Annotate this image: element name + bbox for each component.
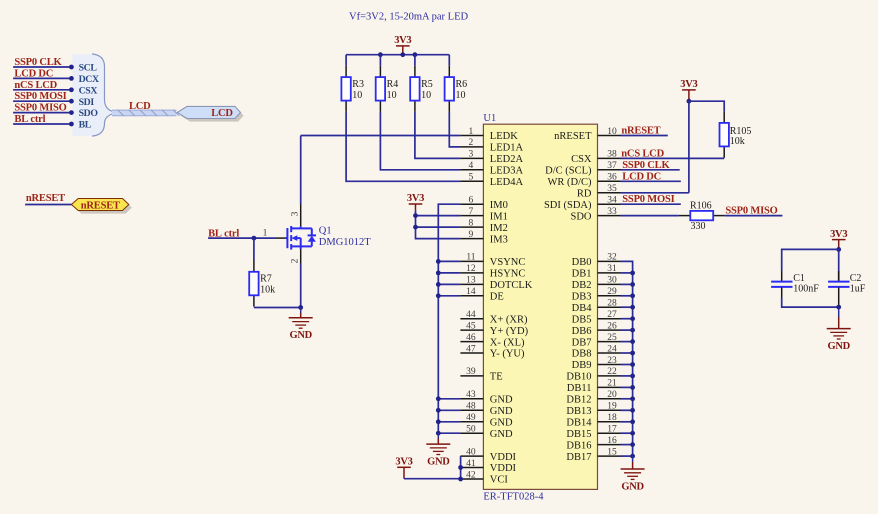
pin 1 LEDK: [460, 135, 483, 137]
svg-text:3V3: 3V3: [395, 457, 412, 468]
svg-text:3V3: 3V3: [407, 193, 424, 204]
svg-text:LCD DC: LCD DC: [622, 171, 661, 182]
wire resistor x=414.9 to LED pin: [415, 112, 461, 158]
svg-text:DB17: DB17: [566, 452, 591, 463]
svg-text:C2: C2: [850, 273, 862, 284]
wire DB row 23: [621, 398, 633, 400]
junction DB row 28: [630, 454, 635, 459]
svg-text:24: 24: [607, 344, 617, 354]
wire 3V3 down to RD: [688, 101, 690, 193]
pin 20 DB12: [598, 398, 621, 400]
wire DB row 18: [621, 341, 633, 343]
svg-text:34: 34: [607, 196, 617, 206]
junction sync row 14: [436, 293, 441, 298]
pin 9 IM3: [460, 238, 483, 240]
svg-text:R106: R106: [690, 200, 712, 211]
wire rail to R3: [345, 55, 347, 66]
svg-text:28: 28: [607, 299, 617, 309]
svg-text:5: 5: [469, 173, 474, 183]
svg-text:330: 330: [691, 221, 706, 232]
wire resistor x=346.1 to LED pin: [346, 112, 460, 181]
junction VCI 42: [458, 477, 463, 482]
svg-text:33: 33: [607, 207, 617, 217]
wire IM2: [416, 226, 461, 228]
wire SDO to R106: [621, 215, 679, 217]
svg-text:DE: DE: [490, 292, 504, 303]
pin 32 DB0: [598, 260, 621, 262]
wire DB row 12: [621, 272, 633, 274]
svg-text:36: 36: [607, 173, 617, 183]
svg-text:DB14: DB14: [566, 418, 592, 429]
ground Q1 source: [289, 318, 313, 328]
svg-text:LCD DC: LCD DC: [14, 68, 53, 79]
svg-text:10k: 10k: [730, 136, 745, 147]
svg-text:LED1A: LED1A: [490, 143, 524, 154]
svg-text:32: 32: [607, 253, 617, 263]
svg-text:14: 14: [466, 287, 476, 297]
pin 18 DB14: [598, 421, 621, 423]
junction DB row 22: [630, 385, 635, 390]
svg-text:9: 9: [469, 230, 474, 240]
pin 37 D/C (SCL): [598, 169, 621, 171]
junction DB row 19: [630, 351, 635, 356]
svg-text:12: 12: [466, 264, 476, 274]
svg-text:27: 27: [607, 310, 617, 320]
wire DB row 27: [621, 444, 633, 446]
svg-text:LEDK: LEDK: [490, 131, 518, 142]
node nCS_LCD into bus brace: [69, 87, 74, 92]
svg-text:DB15: DB15: [566, 429, 591, 440]
junction DB row 18: [630, 339, 635, 344]
svg-text:IM2: IM2: [490, 223, 508, 234]
pin 41 VDDI: [460, 467, 483, 469]
svg-text:2: 2: [291, 258, 301, 263]
wire 3V3 to VCI: [404, 478, 461, 480]
svg-text:10: 10: [421, 90, 431, 101]
pin 24 DB8: [598, 352, 621, 354]
svg-text:DB13: DB13: [566, 406, 591, 417]
pin 31 DB1: [598, 272, 621, 274]
wire rail to R5: [414, 55, 416, 66]
svg-text:GND: GND: [490, 418, 513, 429]
pin 15 DB17: [598, 455, 621, 457]
3V3 stub: [688, 90, 690, 101]
pin 47 Y- (YU): [460, 352, 483, 354]
junction DB row 21: [630, 374, 635, 379]
transistor Q1 gate pin: [275, 237, 286, 239]
svg-text:41: 41: [466, 459, 476, 469]
3V3 stub: [402, 46, 404, 55]
pin 34 SDI (SDA): [598, 203, 621, 205]
pin 17 DB15: [598, 432, 621, 434]
svg-text:10: 10: [607, 127, 617, 137]
wire nRESET: [25, 204, 71, 206]
wire LEDK: [301, 135, 461, 137]
svg-text:SDO: SDO: [79, 108, 99, 119]
wire LCD_DC: [13, 77, 71, 79]
wire DB row 16: [621, 318, 633, 320]
wire GND pin row 24: [438, 409, 460, 411]
svg-text:LED4A: LED4A: [490, 177, 524, 188]
ground DB lines: [621, 469, 645, 479]
bus LCD: [112, 110, 176, 116]
wire DB row 14: [621, 295, 633, 297]
wire DB row 22: [621, 386, 633, 388]
svg-text:GND: GND: [827, 341, 850, 352]
junction 3V3/R105/RD: [687, 99, 692, 104]
pin 12 HSYNC: [460, 272, 483, 274]
svg-text:R7: R7: [260, 274, 272, 285]
wire LEDK to drain: [300, 136, 302, 205]
power 3V3 top rail: [396, 45, 410, 47]
pin 10 nRESET: [598, 135, 621, 137]
svg-text:nRESET: nRESET: [26, 193, 65, 204]
pin 26 DB6: [598, 329, 621, 331]
svg-text:X+ (XR): X+ (XR): [490, 314, 528, 325]
pin 7 IM1: [460, 215, 483, 217]
wire DB row 20: [621, 364, 633, 366]
wire GND pin row 25: [438, 421, 460, 423]
svg-text:44: 44: [466, 310, 476, 320]
wire top to C1: [782, 249, 839, 271]
svg-text:DB9: DB9: [572, 360, 592, 371]
svg-text:42: 42: [466, 470, 476, 480]
pin 6 IM0: [460, 203, 483, 205]
pin 35 RD: [598, 192, 621, 194]
transistor Q1 DMG1012T: [286, 226, 316, 250]
svg-text:C1: C1: [793, 273, 805, 284]
ground caps: [827, 329, 851, 339]
svg-text:nCS LCD: nCS LCD: [14, 80, 57, 91]
wire VDDI tie: [460, 456, 462, 479]
junction BL_ctrl/R7: [252, 236, 257, 241]
pin 46 X- (XL): [460, 341, 483, 343]
wire R7 bottom to source node: [254, 307, 301, 309]
svg-text:D/C (SCL): D/C (SCL): [545, 166, 592, 177]
wire sync row 12: [438, 272, 460, 274]
junction DB row 25: [630, 419, 635, 424]
svg-text:43: 43: [466, 390, 476, 400]
svg-text:DB1: DB1: [572, 269, 592, 280]
svg-text:GND: GND: [490, 395, 513, 406]
svg-text:29: 29: [607, 287, 617, 297]
svg-text:DB7: DB7: [572, 337, 592, 348]
junction GND pin row 25: [436, 419, 441, 424]
svg-text:ER-TFT028-4: ER-TFT028-4: [483, 492, 544, 503]
svg-text:VDDI: VDDI: [490, 452, 517, 463]
svg-text:SDO: SDO: [570, 211, 591, 222]
wire DB tie line: [621, 261, 633, 456]
svg-text:SSP0 CLK: SSP0 CLK: [14, 57, 62, 68]
pin 38 CSX: [598, 157, 621, 159]
pin 21 DB11: [598, 386, 621, 388]
junction DB row 26: [630, 431, 635, 436]
pin 30 DB2: [598, 283, 621, 285]
pin 25 DB7: [598, 341, 621, 343]
junction rail/R4: [378, 52, 383, 57]
pin 39 TE: [460, 375, 483, 377]
svg-text:RD: RD: [577, 189, 592, 200]
svg-text:Y- (YU): Y- (YU): [490, 349, 525, 360]
junction DB row 24: [630, 408, 635, 413]
wire BL_ctrl junction down to R7: [253, 238, 255, 260]
resistor R3 10: [341, 66, 364, 112]
svg-text:31: 31: [607, 264, 617, 274]
svg-text:40: 40: [466, 447, 476, 457]
wire sync row 13: [438, 283, 460, 285]
resistor R105 10k: [723, 112, 725, 123]
svg-text:IM3: IM3: [490, 234, 508, 245]
svg-text:VSYNC: VSYNC: [490, 257, 526, 268]
resistor R106 330: [679, 215, 690, 217]
svg-text:DB2: DB2: [572, 280, 592, 291]
pin 5 LED4A: [460, 180, 483, 182]
junction sync row 13: [436, 282, 441, 287]
node SSP0_MOSI into bus brace: [69, 99, 74, 104]
junction IM1: [413, 213, 418, 218]
node LCD_DC into bus brace: [69, 76, 74, 81]
svg-text:25: 25: [607, 333, 617, 343]
wire IM1: [416, 215, 461, 217]
svg-text:22: 22: [607, 367, 617, 377]
wire sync row 14: [438, 295, 460, 297]
svg-text:DB4: DB4: [572, 303, 593, 314]
svg-text:GND: GND: [427, 457, 450, 468]
svg-text:3V3: 3V3: [394, 35, 411, 46]
pin 2 source stub: [300, 249, 302, 264]
svg-text:15: 15: [607, 447, 617, 457]
svg-text:38: 38: [607, 150, 617, 160]
svg-text:11: 11: [466, 253, 475, 263]
pin 22 DB10: [598, 375, 621, 377]
svg-text:8: 8: [469, 218, 474, 228]
junction DB row 12: [630, 271, 635, 276]
wire rail to R6: [448, 55, 450, 66]
svg-text:30: 30: [607, 276, 617, 286]
svg-text:Y+ (YD): Y+ (YD): [490, 326, 529, 337]
svg-text:CSX: CSX: [79, 85, 98, 96]
pin 19 DB13: [598, 409, 621, 411]
wire 3V3 to IM3: [416, 210, 461, 238]
wire rail to R4: [379, 55, 381, 66]
pin 16 DB16: [598, 444, 621, 446]
junction C2/GND: [836, 305, 841, 310]
ground IC left: [426, 444, 450, 454]
svg-text:13: 13: [466, 276, 476, 286]
resistor R6 10: [445, 66, 468, 112]
svg-text:17: 17: [607, 425, 617, 435]
pin 11 VSYNC: [460, 260, 483, 262]
power 3V3 right: [682, 89, 696, 91]
GND stub: [300, 308, 302, 314]
svg-text:SCL: SCL: [79, 63, 98, 74]
pin 2 LED1A: [460, 146, 483, 148]
svg-text:47: 47: [466, 344, 476, 354]
svg-text:35: 35: [607, 184, 617, 194]
capacitor C2 1uF: [838, 249, 840, 281]
node SSP0_MISO into bus brace: [69, 110, 74, 115]
svg-text:X- (XL): X- (XL): [490, 337, 525, 348]
svg-text:nRESET: nRESET: [81, 200, 120, 211]
power 3V3 caps: [832, 239, 846, 241]
svg-text:SSP0 CLK: SSP0 CLK: [622, 160, 670, 171]
pin 28 DB4: [598, 306, 621, 308]
svg-text:HSYNC: HSYNC: [490, 269, 526, 280]
pin 36 WR (D/C): [598, 180, 621, 182]
junction DB row 15: [630, 305, 635, 310]
svg-text:LED2A: LED2A: [490, 154, 524, 165]
resistor R7 10k: [249, 261, 275, 307]
svg-text:49: 49: [466, 413, 476, 423]
bus collector brace for LCD signals: [72, 54, 114, 136]
svg-text:DB3: DB3: [572, 292, 592, 303]
pin 29 DB3: [598, 295, 621, 297]
svg-text:46: 46: [466, 333, 476, 343]
svg-text:4: 4: [469, 161, 474, 171]
node BL_ctrl into bus brace: [69, 122, 74, 127]
wire resistor x=380.4 to LED pin: [380, 112, 460, 170]
junction GND pin row 24: [436, 408, 441, 413]
junction GND pin row 23: [436, 396, 441, 401]
svg-text:48: 48: [466, 402, 476, 412]
wire DB row 15: [621, 306, 633, 308]
wire SSP0_CLK: [621, 169, 680, 171]
svg-text:GND: GND: [490, 406, 513, 417]
svg-text:SSP0 MISO: SSP0 MISO: [14, 103, 66, 114]
wire sync row 11: [438, 260, 460, 262]
wire DB row 13: [621, 283, 633, 285]
svg-text:10: 10: [387, 90, 397, 101]
wire SSP0_MISO: [13, 112, 71, 114]
svg-text:LCD: LCD: [211, 108, 233, 119]
svg-text:19: 19: [607, 402, 617, 412]
svg-text:Vf=3V2, 15-20mA par LED: Vf=3V2, 15-20mA par LED: [349, 12, 468, 23]
svg-text:SDI: SDI: [79, 97, 95, 108]
svg-text:CSX: CSX: [571, 154, 592, 165]
pin 27 DB5: [598, 318, 621, 320]
junction IM2: [413, 225, 418, 230]
pin 45 Y+ (YD): [460, 329, 483, 331]
svg-text:DB16: DB16: [566, 440, 591, 451]
svg-text:WR (D/C): WR (D/C): [547, 177, 592, 188]
svg-text:7: 7: [469, 207, 474, 217]
svg-text:45: 45: [466, 321, 476, 331]
svg-text:IM1: IM1: [490, 211, 508, 222]
pin 49 GND: [460, 421, 483, 423]
svg-text:DB12: DB12: [566, 395, 591, 406]
pin 48 GND: [460, 409, 483, 411]
wire DB row 25: [621, 421, 633, 423]
wire nCS_LCD: [13, 89, 71, 91]
svg-text:DB5: DB5: [572, 314, 592, 325]
wire nRESET pin 10: [621, 135, 668, 137]
power 3V3 VDDI: [397, 466, 411, 468]
svg-text:26: 26: [607, 321, 617, 331]
svg-text:DB8: DB8: [572, 349, 592, 360]
wire nCS_LCD: [621, 157, 725, 159]
pin 14 DE: [460, 295, 483, 297]
wire LCD_DC: [621, 180, 681, 182]
pin 8 IM2: [460, 226, 483, 228]
svg-text:SDI (SDA): SDI (SDA): [544, 200, 592, 211]
wire resistor x=449.3 to LED pin: [449, 112, 460, 147]
pin 43 GND: [460, 398, 483, 400]
svg-text:VDDI: VDDI: [490, 463, 517, 474]
svg-text:TE: TE: [490, 372, 503, 383]
wire SSP0_MOSI: [13, 100, 71, 102]
svg-text:GND: GND: [289, 330, 312, 341]
wire SSP0_MISO: [725, 215, 783, 217]
svg-text:LCD: LCD: [129, 101, 151, 112]
wire source to GND node: [300, 264, 302, 308]
wire IM0 down to GND pins: [438, 204, 460, 433]
junction rail/3V3: [400, 52, 405, 57]
junction DB row 20: [630, 362, 635, 367]
svg-text:SSP0 MISO: SSP0 MISO: [725, 205, 777, 216]
svg-text:10: 10: [456, 90, 466, 101]
svg-text:DB6: DB6: [572, 326, 592, 337]
svg-text:R6: R6: [456, 79, 468, 90]
hierarchical label LCD: [180, 110, 243, 122]
wire C1 bottom: [782, 298, 839, 308]
svg-text:3: 3: [291, 211, 301, 216]
svg-text:LED3A: LED3A: [490, 166, 524, 177]
wire DB row 24: [621, 409, 633, 411]
svg-text:3V3: 3V3: [830, 229, 847, 240]
wire DB row 19: [621, 352, 633, 354]
pin 44 X+ (XR): [460, 318, 483, 320]
svg-text:2: 2: [469, 138, 474, 148]
global label nRESET: [75, 202, 132, 214]
wire DB row 21: [621, 375, 633, 377]
svg-text:R3: R3: [352, 79, 364, 90]
junction GND pin row 26: [436, 431, 441, 436]
svg-text:Q1: Q1: [319, 225, 332, 236]
svg-text:21: 21: [607, 379, 617, 389]
svg-text:SSP0 MOSI: SSP0 MOSI: [14, 91, 66, 102]
junction DB row 17: [630, 328, 635, 333]
svg-text:nCS LCD: nCS LCD: [621, 148, 664, 159]
junction DB row 23: [630, 396, 635, 401]
svg-text:DB10: DB10: [566, 372, 591, 383]
capacitor C1 100nF: [781, 271, 783, 281]
junction DB row 13: [630, 282, 635, 287]
pin 3 LED2A: [460, 157, 483, 159]
wire 3V3 to R105 top: [689, 101, 724, 111]
svg-text:R5: R5: [421, 79, 433, 90]
pin 40 VDDI: [460, 455, 483, 457]
resistor R5 10: [410, 66, 433, 112]
svg-text:GND: GND: [621, 481, 644, 492]
GND stub: [632, 456, 634, 462]
pin 42 VCI: [460, 478, 483, 480]
svg-text:3: 3: [469, 150, 474, 160]
pin 13 DOTCLK: [460, 283, 483, 285]
pin 33 SDO: [598, 215, 621, 217]
wire BL_ctrl to gate: [208, 237, 275, 239]
wire GND pin row 23: [438, 398, 460, 400]
svg-text:nRESET: nRESET: [554, 131, 592, 142]
svg-text:nRESET: nRESET: [621, 126, 660, 137]
pin 4 LED3A: [460, 169, 483, 171]
wire SSP0_CLK: [13, 66, 71, 68]
wire RD: [621, 192, 689, 194]
svg-text:BL: BL: [79, 120, 92, 131]
svg-text:R4: R4: [387, 79, 399, 90]
svg-text:GND: GND: [490, 429, 513, 440]
svg-text:16: 16: [607, 436, 617, 446]
svg-text:50: 50: [466, 425, 476, 435]
